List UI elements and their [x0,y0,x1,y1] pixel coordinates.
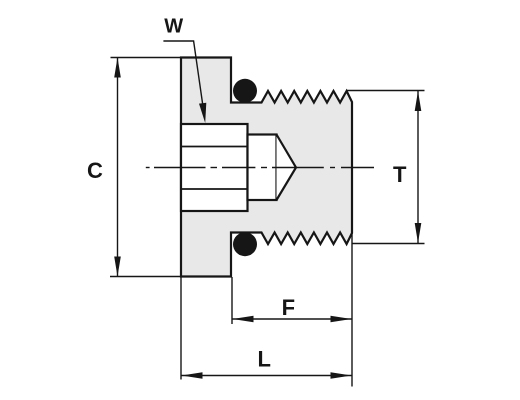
dimension T line [417,91,419,243]
svg-text:L: L [257,347,270,372]
centerline [146,167,374,169]
leader W arrowhead [199,103,206,123]
svg-text:C: C [87,158,103,183]
drill bore [248,135,277,201]
leader line W [163,41,203,110]
dimension T extension line top [347,90,425,92]
hex flat line lower [181,188,248,190]
dimension F arrow right [331,316,352,323]
dimension L line [182,375,352,377]
dimension T extension line bottom [353,243,425,245]
svg-text:F: F [282,295,295,320]
dimension C arrow down [114,257,121,277]
dimension C arrow up [114,58,121,78]
dimension F arrow left [233,316,254,323]
svg-text:W: W [164,16,183,38]
dimension C extension line bottom [110,276,182,278]
dimension L arrow right [331,372,352,379]
dimension L arrow left [182,372,203,379]
dimension C line [117,58,119,276]
hex socket cavity [181,124,248,211]
o-ring top [233,79,257,103]
hex flat line upper [181,146,248,148]
dimension L extension line right [351,231,353,387]
dimension T arrow up [415,91,422,111]
dimension C extension line top [111,57,183,59]
drill cone point [277,135,297,201]
dimension L extension line left [180,278,182,380]
o-ring bottom [233,232,257,256]
plug body (flange + threaded section) [181,58,352,277]
dimension T arrow down [415,223,422,243]
svg-text:T: T [393,162,407,187]
dimension F line [233,318,352,320]
dimension F extension line left [231,277,233,324]
